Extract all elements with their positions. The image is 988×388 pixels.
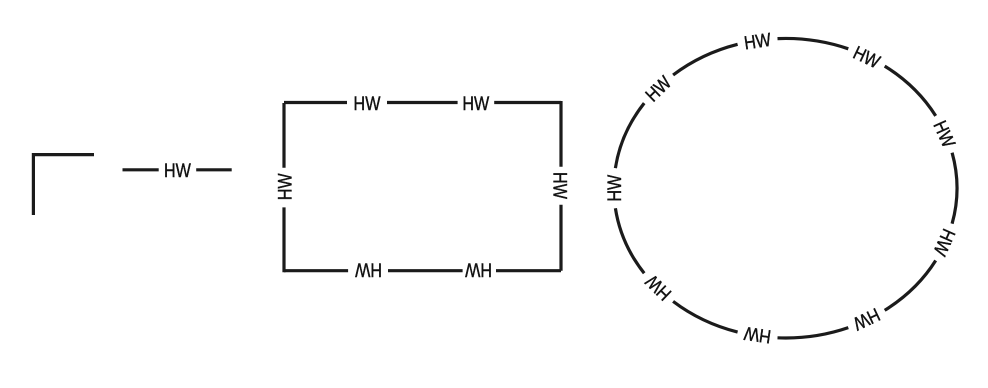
svg-text:HW: HW (743, 29, 773, 54)
line with HW label: right segment (196, 168, 232, 171)
svg-text:HW: HW (549, 172, 571, 199)
svg-text:HW: HW (274, 173, 296, 200)
svg-text:HW: HW (850, 42, 884, 73)
svg-text:HW: HW (850, 304, 884, 335)
rectangle bottom edge segments (284, 269, 561, 272)
svg-text:HW: HW (355, 259, 382, 281)
svg-text:HW: HW (462, 93, 489, 115)
ellipse arc segments (615, 38, 957, 338)
svg-text:HW: HW (465, 259, 492, 281)
svg-text:HW: HW (604, 174, 626, 201)
rectangle right edge segments (559, 101, 562, 271)
rectangle left edge segments (282, 103, 285, 272)
svg-text:HW: HW (641, 71, 676, 105)
svg-text:HW: HW (641, 270, 676, 304)
corner polyline (top-left element) (33, 155, 94, 215)
svg-text:HW: HW (929, 117, 960, 151)
rectangle top edge segments (284, 101, 561, 104)
svg-text:HW: HW (929, 226, 960, 260)
svg-text:HW: HW (164, 160, 191, 182)
svg-text:HW: HW (354, 93, 381, 115)
svg-text:HW: HW (742, 323, 772, 348)
line with HW label: left segment (123, 168, 159, 171)
